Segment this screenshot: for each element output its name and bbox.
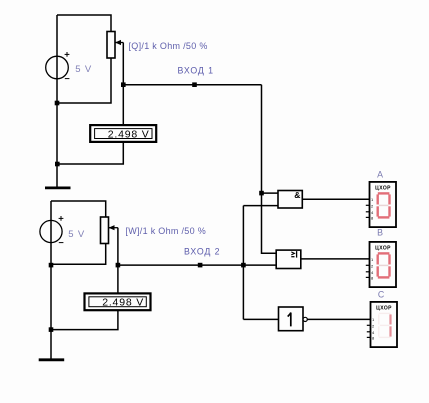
wire NOT output to display C <box>307 318 370 320</box>
battery V1 <box>46 52 70 79</box>
node BXOD 1 bus wire <box>123 84 261 86</box>
junction at wiper/bus <box>121 82 126 87</box>
wire BXOD2 branch vertical <box>242 206 244 320</box>
svg-text:2.498 V: 2.498 V <box>102 297 144 309</box>
AND gate U1 <box>278 190 302 208</box>
svg-text:2.498 V: 2.498 V <box>108 128 150 140</box>
wire R1 bottom rail <box>57 58 111 103</box>
battery V2 <box>40 216 64 243</box>
voltmeter M2 <box>85 293 151 310</box>
junction M1 return <box>55 162 60 167</box>
svg-text:&: & <box>294 190 300 200</box>
wire OR output to display B <box>301 258 370 260</box>
wire top rail to R1 <box>57 15 111 32</box>
svg-text:ЦХОР: ЦХОР <box>375 185 391 191</box>
wire top rail to R2 <box>51 201 106 217</box>
junction BXOD1 split <box>259 191 264 196</box>
OR gate U2 <box>276 250 301 268</box>
node marker BXOD 1 <box>192 82 197 87</box>
node BXOD 2 bus wire <box>118 264 276 266</box>
ground GND1 <box>45 186 71 189</box>
node marker BXOD 2 <box>198 263 203 268</box>
NOT gate U3 <box>279 307 308 331</box>
junction M2 return <box>49 327 54 332</box>
voltmeter M1 <box>90 125 156 142</box>
svg-text:ВХОД 2: ВХОД 2 <box>184 247 220 257</box>
svg-text:5 V: 5 V <box>68 229 85 240</box>
potentiometer R2 [W] <box>101 217 118 244</box>
svg-text:ЦХОР: ЦХОР <box>375 245 391 251</box>
wire R2 wiper down to voltmeter <box>117 228 119 294</box>
wire M2 return to ground <box>51 310 118 329</box>
display B <box>366 227 396 287</box>
svg-text:ЦХОР: ЦХОР <box>376 305 392 311</box>
wire NOT input <box>243 318 278 320</box>
display A <box>366 169 396 227</box>
svg-text:ВХОД 1: ВХОД 1 <box>178 65 214 75</box>
wire AND output to display A <box>302 198 369 200</box>
wire V1 vertical branch <box>56 15 58 188</box>
junction rail/source lower <box>49 263 54 268</box>
display C <box>367 290 397 348</box>
svg-text:[W]/1 k Ohm /50 %: [W]/1 k Ohm /50 % <box>125 226 206 236</box>
junction wiper/bus lower <box>116 263 121 268</box>
svg-text:C: C <box>378 290 385 300</box>
wire R1 wiper down to voltmeter <box>122 43 124 126</box>
wire BXOD1 drop to gates <box>262 85 277 254</box>
wire AND input 1 <box>262 192 279 194</box>
potentiometer R1 [Q] <box>107 32 123 59</box>
wire M1 return to ground <box>57 142 123 164</box>
svg-text:B: B <box>377 227 383 237</box>
junction BXOD2 split <box>241 263 246 268</box>
svg-text:A: A <box>377 169 383 179</box>
wire R2 bottom rail <box>51 244 106 265</box>
wire V2 vertical branch <box>50 201 52 360</box>
svg-text:5 V: 5 V <box>75 64 92 75</box>
junction rail/source upper <box>55 101 60 106</box>
ground GND2 <box>39 358 64 361</box>
wire AND input 2 <box>243 205 278 207</box>
svg-text:[Q]/1 k Ohm /50 %: [Q]/1 k Ohm /50 % <box>129 41 208 51</box>
